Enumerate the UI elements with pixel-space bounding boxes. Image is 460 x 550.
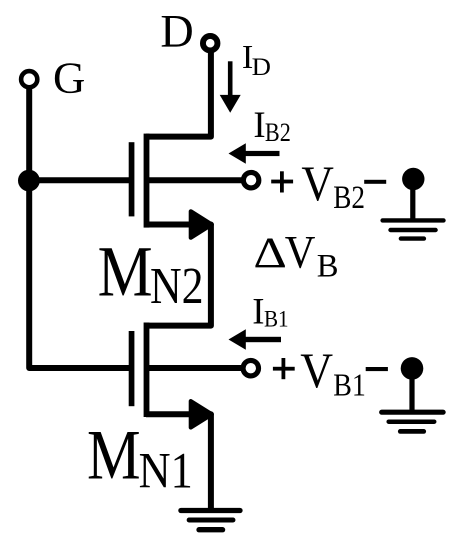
transistor M_N2 channel bar — [144, 134, 150, 228]
svg-text:V: V — [285, 227, 316, 278]
svg-text:B2: B2 — [265, 117, 291, 147]
svg-text:N1: N1 — [139, 442, 193, 499]
ground B2 — [383, 220, 444, 238]
svg-text:Δ: Δ — [253, 230, 287, 277]
node B2 dot — [402, 168, 424, 190]
svg-text:V: V — [300, 343, 333, 398]
M_N2 source arrow — [191, 211, 212, 237]
ground (source of M_N1) — [181, 511, 240, 530]
svg-text:I: I — [253, 104, 265, 145]
terminal B2 circle — [243, 172, 259, 188]
transistor M_N1 channel bar — [144, 323, 150, 418]
terminal G circle — [21, 71, 37, 87]
wire: gate stub to M_N2 — [29, 177, 129, 183]
svg-text:M: M — [98, 232, 153, 312]
svg-text:B1: B1 — [333, 366, 366, 402]
wire: gate rail from G down then right to M_N1 gate — [29, 86, 129, 368]
svg-text:B2: B2 — [333, 180, 365, 216]
svg-text:I: I — [252, 290, 264, 331]
plus sign B2 — [271, 171, 293, 192]
I_B2 current arrow — [229, 143, 280, 164]
svg-text:B1: B1 — [264, 306, 289, 332]
I_D current arrow — [220, 61, 241, 113]
svg-text:G: G — [53, 52, 85, 102]
wire: M_N1 source down to ground — [146, 414, 211, 508]
ground B1 — [382, 412, 443, 431]
terminal B1 circle — [243, 360, 258, 376]
svg-text:N2: N2 — [150, 258, 204, 315]
wire: M_N1 body lead to B1 — [148, 365, 242, 371]
transistor M_N2 gate plate — [129, 142, 135, 216]
svg-text:D: D — [252, 52, 271, 81]
minus sign B2 — [364, 180, 386, 184]
minus sign B1 — [366, 367, 388, 371]
plus sign B1 — [273, 358, 295, 379]
wire: drain of M_N2 up to D — [146, 51, 211, 137]
wire: B2 dot to ground — [410, 179, 415, 220]
wire: B1 dot to ground — [409, 368, 414, 411]
svg-text:D: D — [160, 5, 193, 56]
node B1 dot — [401, 357, 424, 380]
transistor M_N1 gate plate — [129, 331, 135, 406]
wire: M_N2 body lead to B2 — [148, 177, 242, 183]
wire: M_N2 source down to M_N1 drain — [146, 225, 211, 326]
I_B1 current arrow — [229, 329, 282, 350]
svg-text:V: V — [301, 156, 334, 211]
M_N1 source arrow — [191, 401, 212, 427]
svg-text:B: B — [317, 249, 339, 285]
svg-text:M: M — [87, 417, 141, 495]
node: gate junction dot — [18, 170, 40, 192]
terminal D circle — [203, 36, 218, 51]
